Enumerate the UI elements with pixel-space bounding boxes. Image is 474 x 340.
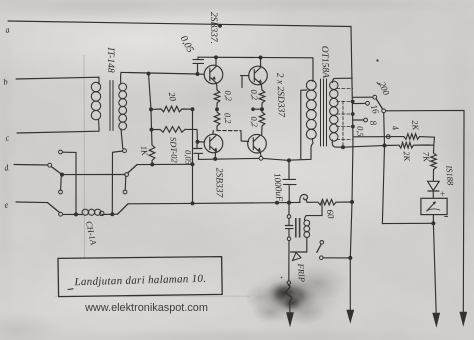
- resistor 20: [151, 106, 193, 112]
- wire tap4 line: [353, 136, 404, 138]
- svg-text:2 x 2SD337: 2 x 2SD337: [274, 73, 286, 119]
- resistor 2K lower: [399, 142, 434, 148]
- terminal branch mid: [287, 237, 291, 241]
- wire Q2 emitter lead: [260, 84, 263, 90]
- wire relay top lead: [305, 202, 323, 220]
- node V1 top: [191, 108, 194, 111]
- wire stub to T4: [124, 176, 127, 190]
- wire OT primary top lead: [312, 58, 314, 80]
- stray mark under box: [68, 288, 73, 291]
- terminal branch top: [287, 215, 291, 219]
- svg-text:2SB337.: 2SB337.: [208, 12, 218, 44]
- terminal common: [382, 109, 386, 113]
- node bus x277: [276, 201, 279, 204]
- terminal T3: [123, 149, 127, 153]
- capacitor C2 0,05 lower: [194, 142, 203, 160]
- wire line-a: [8, 21, 351, 27]
- wire to arrow: [289, 305, 291, 314]
- node d-line V1: [191, 163, 194, 166]
- diode IS188: [428, 181, 440, 190]
- ground arrow A2: [347, 310, 354, 323]
- wire line-d: [14, 164, 48, 167]
- node ground line: [349, 256, 352, 259]
- svg-text:0,2: 0,2: [249, 89, 260, 101]
- wire selector common drop: [382, 113, 384, 224]
- wire stub 8: [353, 119, 364, 121]
- wire 0,5 line: [343, 145, 399, 147]
- switch arm d out: [128, 165, 137, 173]
- resistor 0,2 (Q1 emitter): [214, 90, 220, 109]
- wire line-b: [16, 77, 99, 82]
- terminal 4: [386, 135, 390, 139]
- wire Q1 collector: [215, 57, 217, 66]
- wire T3 to right vertical: [112, 151, 122, 214]
- transistor Q2 2SD337 upper: [249, 66, 268, 85]
- wire bus to OT node: [263, 158, 289, 160]
- stray dot top right: [376, 59, 378, 61]
- selector arm: [376, 99, 382, 109]
- node right chain mid with stub: [261, 108, 264, 111]
- node rail Q1: [215, 56, 218, 59]
- capacitor C1 0,05 upper: [193, 57, 204, 74]
- node bus cap: [288, 201, 291, 204]
- svg-text:0,2: 0,2: [223, 90, 234, 102]
- wire base feed line from IT-148 secondary: [121, 72, 204, 74]
- node SDT left: [150, 128, 153, 131]
- resistor 0,2 (Q2 emitter): [259, 90, 265, 109]
- svg-text:0,2: 0,2: [223, 113, 234, 125]
- terminal circle d: [48, 163, 52, 167]
- node e bus left vertical: [75, 213, 78, 216]
- capacitor 1000uF: [283, 160, 296, 202]
- fuse curl on bus: [300, 194, 310, 202]
- wire IT secondary bottom lead: [121, 129, 123, 149]
- tap nodes: [351, 100, 354, 103]
- wire return line: [382, 222, 433, 224]
- terminal 16: [366, 101, 370, 105]
- wire tiny: [288, 283, 290, 286]
- wire bias vertical V2: [149, 74, 153, 145]
- terminal 8: [364, 118, 368, 122]
- wire OT primary bottom lead: [289, 143, 313, 160]
- OT158A secondary winding: [330, 81, 338, 141]
- relay coil: [304, 220, 310, 237]
- terminal T1: [59, 150, 63, 154]
- svg-text:OT158A: OT158A: [319, 46, 330, 79]
- resistor SDT-02: [152, 127, 186, 133]
- wire crossbar: [62, 174, 125, 176]
- wire e bus right: [102, 213, 118, 215]
- wire right chain stub: [253, 108, 262, 110]
- node OT return: [288, 159, 291, 162]
- wire Q3 base line: [198, 141, 205, 143]
- node on line-a: [219, 24, 222, 27]
- resistor 1K: [149, 145, 155, 165]
- ground arrow A1: [287, 313, 294, 327]
- node bus V1: [191, 202, 194, 205]
- OT core: [321, 79, 327, 146]
- tap dashed vertical: [342, 101, 344, 147]
- meter M: [421, 198, 447, 214]
- tap lines: [337, 89, 354, 140]
- node rail Q2: [259, 56, 262, 59]
- switch contact top: [320, 241, 324, 245]
- terminal before squiggle: [287, 281, 290, 284]
- wire collector rail: [198, 56, 313, 59]
- switch arm e out: [118, 204, 129, 214]
- svg-text:IS188: IS188: [444, 164, 455, 186]
- wire e bus left: [63, 213, 83, 215]
- wire line-c: [17, 127, 99, 133]
- wire IT secondary top lead: [120, 72, 122, 84]
- wire emitter bus lower pair: [199, 158, 259, 159]
- node Q3 base cap: [196, 140, 199, 143]
- node d-line 1K: [151, 163, 154, 166]
- wire bus to 60: [310, 201, 319, 203]
- transistor Q3 2SB337 lower: [204, 134, 223, 153]
- transistor Q1 2SB337 upper: [204, 65, 223, 84]
- wire stub to T2: [60, 175, 63, 190]
- wire Q1 emitter lead: [216, 83, 218, 90]
- node base feed bias drop: [147, 72, 150, 75]
- wire meter ground line: [433, 223, 436, 314]
- info box: [58, 257, 222, 297]
- resistor 60: [318, 199, 336, 205]
- wire 60 to right vertical: [336, 201, 352, 203]
- svg-text:0,5: 0,5: [355, 126, 365, 137]
- node 0,5 selector vertical: [383, 144, 386, 147]
- wire OT secondary top lead: [333, 78, 353, 82]
- node left chain mid: [216, 108, 219, 111]
- terminal T5: [59, 212, 63, 216]
- wire Q3 collector up: [212, 131, 214, 135]
- stray mark right: [377, 83, 379, 85]
- squiggle break: [286, 285, 291, 304]
- meter minus mark: [445, 216, 448, 218]
- wire stub 200: [353, 96, 373, 98]
- ground arrow A4: [460, 312, 467, 326]
- wire relay bottom lead: [291, 238, 307, 253]
- switch arm d: [51, 167, 62, 175]
- svg-text:2SB337: 2SB337: [214, 168, 224, 199]
- resistor 0,2 (lower left): [214, 109, 220, 130]
- terminal T4: [123, 190, 127, 194]
- wire right vertical from line-a down to bottom arrow: [350, 27, 353, 312]
- wire drive link to Q4 base: [217, 130, 241, 132]
- node arm-bus: [61, 173, 64, 176]
- transistor Q4 2SD337 lower: [248, 134, 267, 153]
- node bus right: [351, 201, 354, 204]
- speaker switch block: [14, 149, 137, 216]
- wire selector ground line: [462, 123, 465, 313]
- IT-148 core: [110, 81, 113, 131]
- wire meter bottom: [432, 215, 434, 224]
- label FRIP triangle: [293, 253, 302, 261]
- wire to 7K: [433, 145, 435, 153]
- choke CH-1A: [82, 209, 104, 216]
- wire Q4 emitter lead: [259, 152, 262, 157]
- svg-text:SDT-02: SDT-02: [168, 137, 179, 164]
- wire SDT-02 right lead drop: [185, 129, 198, 141]
- wire branch continue: [288, 241, 290, 281]
- wire OT primary tap to bus: [301, 90, 307, 159]
- node meter return: [432, 222, 435, 225]
- wire V1 vertical: [192, 109, 194, 203]
- node Q3 emitter: [214, 158, 217, 161]
- stray speck left of FRIP: [281, 277, 283, 279]
- wire line-e: [16, 201, 48, 204]
- wire stub 16: [353, 102, 366, 104]
- svg-text:www.elektronikaspot.com: www.elektronikaspot.com: [84, 302, 208, 314]
- relay branch: [285, 202, 352, 326]
- wire Q3 emitter lead: [214, 153, 216, 159]
- OT158A primary winding: [306, 80, 316, 143]
- wire d-output line: [137, 163, 193, 165]
- terminal mid right: [125, 173, 129, 177]
- switch contact bottom: [320, 256, 324, 260]
- resistor 7K: [431, 153, 437, 181]
- wire OT secondary bottom lead: [332, 140, 343, 147]
- switch arm: [317, 244, 322, 252]
- resistor 0,2 (lower right): [259, 109, 265, 135]
- wire T1 to left vertical: [62, 152, 76, 214]
- svg-text:IT-148: IT-148: [105, 46, 115, 72]
- svg-text:+: +: [440, 189, 445, 199]
- fold crease: [83, 55, 86, 258]
- capacitor branch: [285, 218, 293, 237]
- wire switch to ground line: [323, 257, 350, 259]
- terminal circle Q4 emitter: [259, 156, 263, 160]
- terminal 200: [373, 95, 377, 99]
- resistor 2K upper: [404, 134, 435, 145]
- OT158A transformer: [289, 58, 354, 160]
- switch arm e: [48, 203, 60, 213]
- IT-148 secondary winding: [119, 83, 127, 130]
- svg-text:0,05: 0,05: [183, 150, 194, 165]
- wire main bottom bus: [128, 202, 300, 203]
- svg-text:FRIP: FRIP: [296, 262, 307, 282]
- IT-148 transformer: [16, 72, 127, 148]
- IT-148 primary winding: [91, 82, 100, 127]
- wire Q2 collector: [260, 58, 262, 67]
- ink stain blobs: [245, 265, 348, 325]
- svg-text:0,2: 0,2: [249, 116, 260, 128]
- wire Q2 base stub: [241, 76, 250, 88]
- output selector: [343, 95, 467, 326]
- wire branch down: [288, 203, 290, 215]
- node e bus right vertical: [111, 213, 114, 216]
- ground arrow A3: [433, 313, 440, 327]
- relay core bars: [295, 218, 297, 238]
- wire selector output: [386, 110, 464, 123]
- node 20 left: [150, 108, 153, 111]
- terminal T2: [59, 190, 63, 194]
- node base feed cap: [196, 73, 199, 76]
